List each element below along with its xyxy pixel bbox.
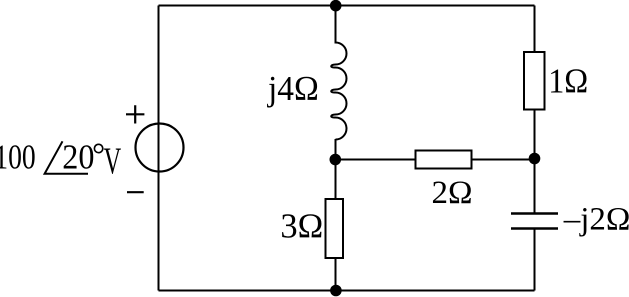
svg-text:–j2Ω: –j2Ω — [563, 201, 629, 237]
svg-text:2Ω: 2Ω — [432, 175, 473, 211]
svg-text:20: 20 — [62, 138, 94, 177]
svg-text:3Ω: 3Ω — [280, 206, 323, 245]
svg-text:100: 100 — [0, 137, 36, 176]
svg-text:j4Ω: j4Ω — [267, 70, 319, 108]
svg-text:V: V — [104, 140, 122, 182]
svg-text:1Ω: 1Ω — [548, 62, 588, 101]
